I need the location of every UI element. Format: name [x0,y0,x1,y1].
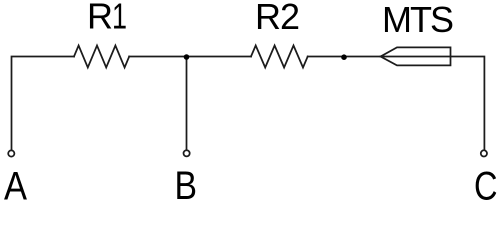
resistor R1 [74,46,129,68]
wire through MTS and right rail down to terminal C [381,57,485,151]
wire R1 to R2 [129,56,251,58]
svg-text:R2: R2 [255,0,299,37]
wire R2 to MTS [308,56,381,58]
terminal B [184,150,190,156]
svg-text:A: A [4,164,27,201]
svg-text:C: C [474,164,498,201]
svg-text:MTS: MTS [382,0,453,40]
terminal C [481,150,487,156]
terminal A [8,150,14,156]
svg-text:1: 1 [112,0,127,36]
resistor R2 [251,46,308,68]
thermal switch MTS body [381,47,451,65]
wire left rail: terminal A up and across to R1 [12,57,75,151]
svg-text:B: B [175,164,198,201]
junction node at B [184,54,190,60]
svg-text:R: R [87,0,113,36]
wire branch to terminal B [186,57,188,150]
junction node before MTS [341,54,347,60]
